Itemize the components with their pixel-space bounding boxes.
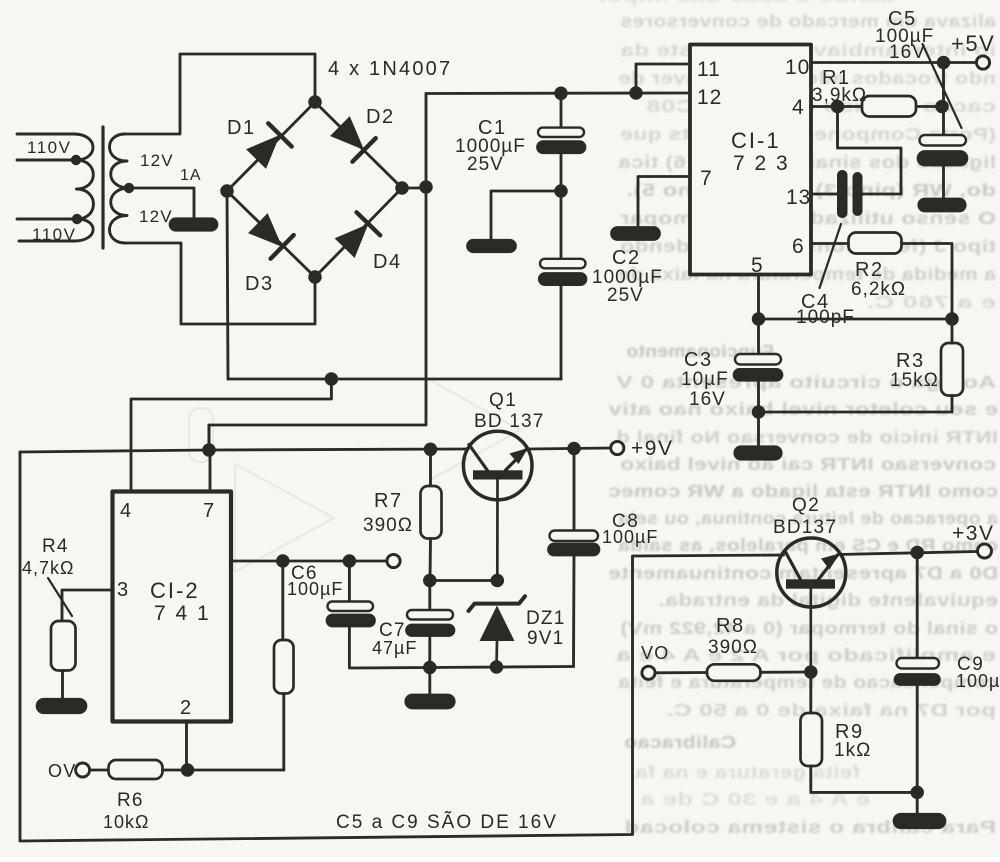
svg-text:47µF: 47µF <box>372 638 417 658</box>
svg-text:R4: R4 <box>42 536 69 557</box>
wire R1 to +5V bus <box>916 105 944 108</box>
wire CI-2 pin2 down <box>185 722 188 771</box>
svg-text:1kΩ: 1kΩ <box>834 740 871 761</box>
wire CI-1 pin4 to R1 <box>811 105 862 108</box>
junction 0V to CI-2 pin 4 <box>326 374 337 385</box>
capacitor C4 100pF <box>837 170 863 218</box>
pointer line C4 label <box>820 224 842 288</box>
svg-text:13: 13 <box>786 186 811 209</box>
capacitor C7 47uF <box>407 610 455 636</box>
wire to ground C3 <box>757 412 760 446</box>
wire top rail to CI-1 pin 12 <box>426 92 690 95</box>
svg-text:equivalente digital da entrada: equivalente digital da entrada. <box>658 590 998 610</box>
wire C4 to elbow <box>863 193 902 196</box>
wire C7 to 0V rail <box>428 636 431 668</box>
wire R4 to ground <box>61 671 64 699</box>
svg-text:16V: 16V <box>689 389 726 410</box>
svg-text:6,2kΩ: 6,2kΩ <box>851 279 906 300</box>
svg-text:o sinal do termopar (0 a 42,92: o sinal do termopar (0 a 42,922 mV) <box>620 618 998 638</box>
pointer line R4 label <box>48 578 72 616</box>
capacitor C9 100uF <box>895 658 940 685</box>
capacitor C8 100uF <box>549 531 600 556</box>
svg-text:12V: 12V <box>140 151 174 170</box>
wire bridge edge D1 <box>227 102 315 191</box>
capacitor C6 100uF <box>327 602 375 627</box>
svg-text:100pF: 100pF <box>796 307 855 328</box>
wire +5V to C5 <box>942 63 945 136</box>
ground C3 <box>735 447 782 460</box>
transistor Q2 BD137 <box>777 538 846 672</box>
wire bridge + output <box>402 187 426 190</box>
wire CI-2 output <box>231 560 387 563</box>
wire C1 bottom to ground <box>491 191 561 240</box>
pointer line C5 label <box>923 44 962 128</box>
transformer primary winding 110V/110V <box>17 134 93 241</box>
svg-text:Q2: Q2 <box>792 495 820 516</box>
svg-text:R3: R3 <box>896 350 925 372</box>
svg-text:110V: 110V <box>27 138 71 157</box>
svg-text:por D7 na faixa de 0 a 50 C.: por D7 na faixa de 0 a 50 C. <box>666 700 996 720</box>
wire CI-1 pin5 down <box>757 275 760 320</box>
svg-text:conversao INTR cai ao nivel b: conversao INTR cai ao nivel baixo <box>620 454 996 474</box>
junction R1 right to C5 bus <box>937 101 948 112</box>
wire CI-1 pin7 to ground <box>638 177 690 228</box>
svg-text:dando a acao das impor: dando a acao das impor <box>596 0 896 6</box>
svg-text:16V: 16V <box>889 42 926 63</box>
svg-text:BD 137: BD 137 <box>474 411 545 432</box>
svg-text:6: 6 <box>792 235 805 258</box>
ground C9/R9 <box>894 814 945 828</box>
wire C5 to ground <box>942 165 945 197</box>
resistor R1 3,9k <box>862 96 916 117</box>
wire OV to R6 <box>90 769 109 772</box>
wire bridge edge D4 <box>315 188 402 277</box>
svg-text:3,9kΩ: 3,9kΩ <box>812 85 867 106</box>
transformer core <box>101 127 104 248</box>
ground 0V rail <box>406 695 455 708</box>
svg-text:12V: 12V <box>139 207 173 226</box>
svg-text:Calibracao: Calibracao <box>624 732 736 752</box>
svg-text:100µF: 100µF <box>956 671 1000 691</box>
svg-text:R2: R2 <box>855 259 884 281</box>
wire Q1 emitter to +9V <box>528 448 610 449</box>
wire to C7 <box>428 581 431 611</box>
resistor R2 6,2k <box>849 233 902 254</box>
junction output to R5 <box>277 556 288 567</box>
svg-text:390Ω: 390Ω <box>363 515 413 536</box>
capacitor C3 10uF 16V <box>734 354 782 380</box>
svg-text:VO: VO <box>641 643 669 663</box>
svg-text:2: 2 <box>180 697 192 719</box>
svg-text:9V1: 9V1 <box>527 628 564 649</box>
svg-text:e seu coletor nivel baixo na: e seu coletor nivel baixo nao ativ <box>608 399 998 419</box>
wire 0V rail under Q1 <box>430 667 574 668</box>
wire R7 to base node <box>429 539 432 581</box>
wire 0V horizontal <box>228 378 561 381</box>
svg-text:+5V: +5V <box>951 31 995 56</box>
svg-text:D1: D1 <box>227 117 256 139</box>
svg-text:1A: 1A <box>180 167 202 184</box>
wire node to Q1 base line <box>430 579 498 582</box>
ground C1 <box>468 240 516 252</box>
junction bridge + to vertical bus <box>421 182 432 193</box>
svg-text:12: 12 <box>697 86 722 109</box>
svg-text:390Ω: 390Ω <box>708 637 758 658</box>
wire to C8 <box>573 449 576 531</box>
junction bridge left node (0V) <box>222 186 233 197</box>
wire CI-1 pin6 to R2 <box>811 242 849 245</box>
junction C3 bottom <box>753 407 764 418</box>
wire C1 to junction <box>560 153 563 191</box>
svg-text:D3: D3 <box>245 273 274 295</box>
terminal terminal +9V <box>611 441 624 454</box>
svg-text:+9V: +9V <box>631 437 673 460</box>
wire R8 to base node <box>761 671 811 674</box>
ground R4 <box>37 699 86 713</box>
svg-text:100µF: 100µF <box>602 527 658 547</box>
wire C3 to junction <box>757 380 760 412</box>
wire bridge edge D3 <box>227 191 315 277</box>
wire junction to R3 bottom <box>759 396 953 413</box>
terminal terminal CI-2 output <box>387 554 400 567</box>
junction Q2 base / R8 / R9 <box>805 667 816 678</box>
junction C1 top <box>556 88 567 99</box>
wire R2 to R3 top rail <box>902 244 953 320</box>
wire V+ rail to Q1 collector <box>209 449 468 450</box>
svg-text:7: 7 <box>700 167 713 190</box>
svg-text:25V: 25V <box>607 285 644 306</box>
svg-text:4: 4 <box>120 500 132 522</box>
junction bridge top AC node <box>310 97 321 108</box>
wire bottom reference rail <box>759 318 953 321</box>
resistor R8 390 <box>707 664 761 681</box>
svg-text:100µF: 100µF <box>287 579 343 599</box>
svg-text:Q1: Q1 <box>489 390 517 411</box>
svg-text:4,7kΩ: 4,7kΩ <box>22 558 74 578</box>
junction Q1 base / DZ1 <box>492 575 503 586</box>
ground C5 <box>919 199 966 211</box>
wire branch to CI-1 pin 11 <box>636 64 690 93</box>
junction R9/C9 bottom <box>912 787 923 798</box>
wire 0V to CI-2 pin 4 <box>131 379 331 491</box>
svg-text:Ao liga o circuito apresenta: Ao liga o circuito apresenta 0 V <box>616 372 996 392</box>
junction C9 branch <box>912 547 923 558</box>
svg-text:11: 11 <box>697 58 721 81</box>
svg-text:feita geratura e na fa: feita geratura e na fa <box>635 762 860 782</box>
wire R6 to R5 bottom <box>163 769 284 772</box>
resistor R3 15k <box>941 343 963 396</box>
wire CI-1 pin13 to C4 <box>811 193 838 196</box>
wire junction to C2 <box>560 191 563 259</box>
wire jog down (already drawn) <box>208 425 211 450</box>
wire 0V rail to ground <box>428 668 431 695</box>
svg-text:4 x 1N4007: 4 x 1N4007 <box>328 58 452 80</box>
svg-text:4: 4 <box>792 96 805 119</box>
diode D4 <box>333 212 380 259</box>
junction primary tap upper <box>71 155 81 165</box>
wire to C3 <box>757 319 760 354</box>
svg-text:DZ1: DZ1 <box>526 608 566 629</box>
op-amp/regulator IC CI-1 (723) <box>690 45 811 275</box>
wire secondary top to bridge AC node <box>125 54 315 134</box>
wire bridge edge D2 <box>315 102 402 188</box>
wire + bus from top rail down and jog to V+ rail <box>209 94 426 451</box>
svg-text:15kΩ: 15kΩ <box>890 370 939 391</box>
svg-text:alizava um mercado de converso: alizava um mercado de conversores <box>620 11 996 31</box>
wire V+ rail left segment <box>20 450 209 452</box>
diode D3 <box>246 211 293 258</box>
zener diode DZ1 9V1 <box>469 596 526 667</box>
wire Q2 emitter to +3V <box>838 552 977 555</box>
diode D1 <box>244 123 291 170</box>
wire to R5 <box>281 561 284 640</box>
wire R9 bottom <box>811 766 917 792</box>
resistor R4 4,7k <box>51 621 76 671</box>
svg-text:10µF: 10µF <box>681 369 729 390</box>
capacitor C5 100uF 16V <box>918 135 967 165</box>
junction primary tap lower <box>72 214 82 224</box>
junction pin4/R1 node <box>832 101 843 112</box>
junction DZ1 anode on 0V rail <box>491 662 502 673</box>
resistor R5 10k <box>274 640 294 694</box>
svg-text:10kΩ: 10kΩ <box>103 812 149 832</box>
wire CI-2 pin3 to R4 <box>62 590 113 621</box>
svg-text:OV: OV <box>48 761 76 781</box>
junction pin2/R6/R5 <box>182 765 193 776</box>
wire C6 bottom to 0V rail <box>349 626 429 668</box>
wire bridge left node down (0V) <box>227 191 228 379</box>
junction 0V rail at C7 <box>424 662 435 673</box>
wire pin7 stub <box>209 450 212 491</box>
wire rail to R3 top <box>951 319 954 343</box>
ground center tap <box>170 219 217 231</box>
svg-text:C2: C2 <box>612 247 641 269</box>
junction pin11 branch <box>631 88 642 99</box>
svg-text:7 4 1: 7 4 1 <box>154 602 211 625</box>
terminal terminal VO <box>642 666 655 679</box>
transistor Q1 BD137 <box>463 431 532 580</box>
capacitor C1 1000uF 25V <box>538 128 586 153</box>
svg-text:R8: R8 <box>716 615 745 637</box>
junction bridge right node (+) <box>397 183 408 194</box>
svg-text:D2: D2 <box>366 106 395 128</box>
svg-text:C5 a C9 SÃO DE 16V: C5 a C9 SÃO DE 16V <box>336 811 558 833</box>
resistor R6 10k <box>109 760 163 779</box>
svg-text:5: 5 <box>751 254 764 277</box>
svg-text:10: 10 <box>785 56 810 79</box>
junction +5V rail to C5 <box>938 57 949 68</box>
wire R5 bottom <box>282 694 285 771</box>
wire C8 to 0V rail <box>572 555 575 667</box>
wire VO to R8 <box>655 671 707 674</box>
wire center tap to ground <box>129 188 194 218</box>
svg-text:C3: C3 <box>684 349 713 371</box>
junction C1 bottom <box>556 186 567 197</box>
wire to ground C9 <box>916 792 919 813</box>
wire to C6 <box>348 561 351 602</box>
svg-text:CI-2: CI-2 <box>150 578 200 603</box>
transformer secondary winding 12V/12V <box>109 134 129 243</box>
ground CI-1 pin7 <box>612 228 660 240</box>
terminal terminal OV <box>76 763 90 777</box>
wire secondary bottom to bridge AC node <box>125 243 315 324</box>
svg-text:D4: D4 <box>373 251 402 273</box>
svg-text:R6: R6 <box>117 790 144 811</box>
svg-text:R7: R7 <box>374 490 403 512</box>
junction pin5 rail left <box>753 314 764 325</box>
wire CI-1 pin10 to +5V terminal <box>811 61 976 64</box>
capacitor C2 1000uF 25V <box>539 259 586 285</box>
op-amp CI-2 (741) <box>113 492 232 722</box>
svg-text:7 2 3: 7 2 3 <box>733 152 790 175</box>
junction output to C6 <box>344 556 355 567</box>
terminal terminal +3V <box>978 544 992 558</box>
junction C8 branch <box>569 443 580 454</box>
svg-text:7: 7 <box>203 500 215 522</box>
svg-text:25V: 25V <box>467 154 504 175</box>
wire to C1 <box>560 93 563 127</box>
wire pin4 node to C4 right plate <box>838 107 902 195</box>
diode D2 <box>328 114 375 161</box>
resistor R9 1k <box>801 713 823 766</box>
wire C9 to bottom junction <box>916 685 919 793</box>
resistor R7 390 <box>421 486 442 539</box>
svg-text:+3V: +3V <box>952 522 994 545</box>
wire base node to R9 <box>809 672 812 713</box>
junction rail to R3 <box>947 314 958 325</box>
wire rail to R7 <box>429 449 432 486</box>
svg-text:3: 3 <box>117 579 129 601</box>
junction bridge bottom AC node <box>310 272 321 283</box>
wire V+ feed around to Q2 collector <box>20 452 784 841</box>
svg-text:CI-1: CI-1 <box>731 128 781 153</box>
wire C2 bottom to 0V line <box>560 285 563 379</box>
svg-text:110V: 110V <box>32 225 76 244</box>
junction secondary center tap <box>124 183 134 193</box>
junction R7/C7 node <box>424 575 435 586</box>
wire +3V to C9 <box>916 553 919 659</box>
svg-text:BD137: BD137 <box>773 517 837 538</box>
terminal +5V terminal <box>976 56 989 69</box>
junction R7 top <box>425 444 436 455</box>
junction CI-2 pin7 supply <box>204 445 215 456</box>
